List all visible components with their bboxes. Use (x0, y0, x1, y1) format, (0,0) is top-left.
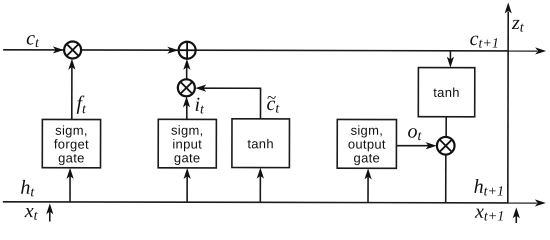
svg-text:xt: xt (24, 200, 39, 224)
svg-text:tanh: tanh (247, 136, 274, 151)
svg-text:gate: gate (354, 150, 381, 165)
svg-text:ct: ct (26, 27, 40, 51)
svg-text:ot: ot (407, 120, 422, 144)
svg-text:ft: ft (76, 93, 87, 118)
svg-text:zt: zt (511, 12, 525, 36)
svg-text:sigm,: sigm, (55, 123, 88, 138)
svg-text:ht+1: ht+1 (474, 176, 504, 200)
svg-text:ht: ht (20, 177, 35, 201)
svg-text:ct+1: ct+1 (470, 28, 499, 52)
svg-text:sigm,: sigm, (171, 123, 204, 138)
svg-text:input: input (172, 136, 202, 151)
svg-text:xt+1: xt+1 (474, 201, 504, 225)
svg-text:tanh: tanh (433, 85, 460, 100)
svg-text:it: it (194, 94, 205, 118)
svg-text:~: ~ (267, 88, 276, 107)
svg-text:gate: gate (58, 150, 85, 165)
svg-text:gate: gate (174, 150, 201, 165)
svg-text:forget: forget (54, 137, 89, 152)
svg-text:sigm,: sigm, (351, 123, 384, 138)
